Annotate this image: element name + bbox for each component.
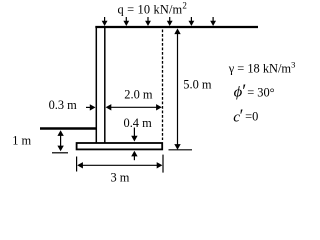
svg-text:2.0 m: 2.0 m: [124, 88, 153, 102]
surcharge arrow 6: [210, 17, 216, 26]
svg-text:= 30°: = 30°: [247, 85, 274, 99]
dimension 2.0 m double arrow: [106, 104, 162, 110]
ground surface left of wall: [40, 127, 96, 130]
surcharge arrow 1: [102, 17, 108, 26]
surcharge arrow 4: [167, 17, 173, 26]
extension line below footing left: [76, 157, 78, 172]
tick at base level right of footing: [169, 149, 193, 151]
tick at base level under 1 m arrow: [52, 152, 68, 154]
svg-text:′: ′: [242, 82, 246, 102]
wall stem left face: [95, 26, 97, 143]
surcharge arrow 3: [145, 17, 151, 26]
surcharge arrow 5: [189, 17, 195, 26]
svg-text:3 m: 3 m: [111, 171, 130, 185]
dimension 1 m double arrow: [57, 130, 63, 151]
dashed vertical line above footing heel edge: [162, 30, 164, 141]
backfill top surface line: [95, 26, 258, 28]
svg-text:=0: =0: [245, 110, 258, 124]
svg-text:5.0 m: 5.0 m: [183, 77, 212, 91]
footing (base slab): [77, 143, 163, 149]
svg-text:ϕ: ϕ: [234, 84, 243, 100]
dimension 0.4 m upper arrow pointing down at footing top: [131, 128, 137, 142]
svg-text:0.3 m: 0.3 m: [49, 98, 78, 112]
svg-text:′: ′: [240, 106, 244, 126]
svg-text:1 m: 1 m: [12, 133, 31, 147]
dimension 3 m double arrow: [77, 162, 162, 168]
surcharge arrow 2: [123, 17, 129, 26]
dimension 0.4 m lower arrow pointing up at footing bottom: [131, 151, 137, 161]
svg-text:q = 10 kN/m2: q = 10 kN/m2: [118, 0, 188, 16]
svg-text:γ = 18 kN/m3: γ = 18 kN/m3: [228, 59, 296, 75]
dimension 5.0 m vertical double arrow: [174, 28, 180, 149]
wall stem right face: [104, 26, 106, 143]
extension line below footing right: [162, 155, 164, 173]
svg-text:0.4 m: 0.4 m: [124, 116, 153, 130]
dimension 0.3 m arrow pointing right at wall: [86, 104, 96, 110]
